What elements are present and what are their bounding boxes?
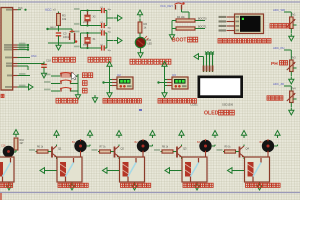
- svg-text:8MHZ: 8MHZ: [83, 44, 89, 46]
- svg-text:SSD1306: SSD1306: [222, 103, 234, 107]
- wire vertical rail of U3: [164, 67, 166, 91]
- output arrow of crystal X2 circuit: [107, 15, 122, 21]
- potentiometer RV4: [287, 88, 297, 108]
- wire VCC to R3: [58, 12, 60, 14]
- svg-text:R8 1k: R8 1k: [162, 146, 169, 148]
- svg-text:BOOT1: BOOT1: [198, 26, 207, 29]
- transistor Q3: [177, 146, 187, 158]
- wire collector of Q3 to VCC: [181, 145, 183, 147]
- svg-text:30p: 30p: [108, 50, 112, 52]
- wire left leg of X2: [80, 11, 82, 26]
- LED D2: [135, 36, 152, 48]
- power arrow above Q1: [54, 131, 59, 139]
- svg-text:10k: 10k: [62, 17, 67, 21]
- ground of reset circuit: [56, 43, 61, 51]
- resistor R5 BOOT1: [176, 27, 195, 30]
- power arrow at motor of RL3: [212, 131, 217, 139]
- label text 独立按键: [56, 98, 78, 103]
- label text 串口1窗口（模拟手机端）: [218, 39, 271, 43]
- MCU part designator text: [1, 94, 4, 97]
- wire collector of Q1 to VCC: [56, 145, 58, 147]
- terminal cursor green dot: [242, 18, 244, 20]
- relay RL0 contact: [3, 158, 11, 182]
- resistor R2: [138, 22, 147, 33]
- label text 晶振电路: [88, 57, 111, 62]
- capacitor C5: [99, 44, 112, 52]
- power arrow above U2: [107, 62, 112, 70]
- svg-text:ADC_ZD: ADC_ZD: [273, 82, 284, 86]
- svg-text:1k: 1k: [144, 25, 147, 29]
- push button BOOT select: [175, 2, 190, 20]
- wire emitter of Q1 into relay: [56, 157, 58, 159]
- resistor R9: [225, 146, 236, 153]
- DS18B20 U3 adjust dots: [175, 85, 187, 88]
- wire base of Q1: [48, 151, 52, 153]
- relay RL2 body: [120, 157, 145, 182]
- arrow into relay RL2: [103, 168, 120, 174]
- net label input of Q3: [154, 149, 162, 151]
- power arrow above Q2: [116, 131, 121, 139]
- wire base of Q3: [173, 151, 177, 153]
- label text of clipped unit: [0, 183, 13, 187]
- net label input of Q2: [92, 149, 100, 151]
- wire motor of RL2 to VCC: [149, 145, 152, 147]
- wire to key K3: [44, 89, 60, 91]
- net label VCC (blue) above R3: [45, 8, 56, 12]
- wire R2 to D2: [139, 33, 141, 38]
- svg-text:32768: 32768: [83, 22, 89, 24]
- resistor R7: [100, 146, 111, 153]
- wire common key rail: [77, 74, 79, 94]
- svg-text:C4: C4: [100, 29, 104, 31]
- label text 测温模块 U2: [103, 99, 141, 104]
- wire OSC32_OUT: [18, 45, 30, 49]
- svg-text:C2: C2: [100, 22, 104, 24]
- transistor Q2: [115, 146, 125, 158]
- resistor R8: [162, 146, 173, 153]
- ground below relay RL4: [257, 183, 262, 191]
- DS18B20 U2 LCD readout: [119, 79, 131, 84]
- OLED display U4 body: [198, 76, 244, 99]
- DS18B20 U2 body: [117, 77, 133, 89]
- label text 继电器(循环): [58, 183, 88, 187]
- wire crystal X2 bottom rail: [74, 23, 99, 25]
- DS18B20 U3 LCD readout: [174, 79, 186, 84]
- wire top of RV4: [284, 85, 291, 87]
- wire base of Q4: [236, 151, 240, 153]
- label text for RV1: [270, 24, 290, 28]
- wire to key K1: [44, 74, 60, 76]
- node NRST horizontal wire: [46, 27, 72, 30]
- relay RL2 contact: [128, 158, 136, 182]
- svg-text:OSC: OSC: [31, 54, 37, 58]
- power arrow above Q4: [241, 131, 246, 139]
- svg-text:R4 10k: R4 10k: [177, 16, 185, 19]
- svg-text:LCD1: LCD1: [191, 103, 199, 107]
- push button K1: [60, 72, 78, 78]
- svg-text:D2: D2: [148, 38, 152, 42]
- ground below relay RL0: [6, 183, 11, 191]
- svg-text:C18: C18: [46, 59, 51, 63]
- svg-text:X2: X2: [93, 16, 97, 19]
- svg-text:R2: R2: [144, 22, 148, 26]
- svg-text:v3: v3: [53, 9, 56, 12]
- power arrow above U3: [162, 62, 167, 70]
- power arrow at motor of RL2: [150, 131, 155, 139]
- resistor R3: [57, 14, 67, 26]
- power arrow on MCU BOOT0 net: [27, 84, 34, 90]
- wire collector of Q2 to VCC: [118, 145, 120, 147]
- svg-text:30p: 30p: [108, 32, 112, 34]
- ground below C18: [41, 70, 46, 78]
- svg-text:R7 1k: R7 1k: [100, 146, 107, 148]
- svg-text:C16: C16: [1, 144, 6, 147]
- OLED pin name labels: [203, 66, 214, 72]
- virtual terminal body: [235, 14, 264, 34]
- net label input of Q4: [217, 149, 225, 151]
- extra ground near DS module wire: [92, 95, 97, 103]
- svg-text:30p: 30p: [108, 28, 112, 30]
- OLED header pins: [204, 52, 215, 73]
- label text 继电器(过滤板): [246, 183, 281, 187]
- svg-text:Q4: Q4: [246, 146, 250, 150]
- svg-text:30p: 30p: [108, 9, 112, 11]
- svg-text:LED: LED: [148, 43, 153, 45]
- svg-text:RV1: RV1: [291, 14, 296, 17]
- label text 加: [83, 81, 88, 86]
- label text 继电器(加氧): [183, 183, 213, 187]
- svg-text:Q1: Q1: [58, 146, 62, 150]
- mouse cursor: [72, 72, 77, 80]
- net junction blue dot: [139, 109, 142, 111]
- relay RL0 body (clipped): [0, 157, 14, 182]
- crystal X2: [83, 9, 96, 26]
- power arrow above Q3: [179, 131, 184, 139]
- wire to key K2: [44, 81, 60, 83]
- capacitor C2: [99, 22, 112, 30]
- wire top of RV1: [284, 11, 291, 13]
- wire emitter of Q2 into relay: [118, 157, 120, 159]
- wire NRST pin: [18, 73, 31, 75]
- terminal inner pin labels: [236, 16, 240, 31]
- transistor Q4: [240, 146, 250, 158]
- ground below U3: [162, 90, 167, 98]
- output arrow of crystal X1 circuit: [107, 38, 122, 44]
- wire right leg of X2: [106, 11, 108, 26]
- virtual terminal pins: [219, 16, 235, 32]
- svg-text:PH: PH: [271, 61, 278, 67]
- ground below RV3: [289, 77, 294, 85]
- svg-text:ADC_WD: ADC_WD: [273, 8, 285, 12]
- svg-text:VCC: VCC: [45, 8, 52, 12]
- wire BOOT0 pin of MCU: [18, 85, 29, 87]
- ground of BOOT circuit: [169, 32, 174, 40]
- label text 继电器(加热): [121, 183, 151, 187]
- wire VDDA to C18: [18, 63, 45, 65]
- push button K3: [60, 88, 78, 92]
- svg-text:OLED: OLED: [204, 111, 219, 117]
- wire PC15 pin: [18, 47, 30, 51]
- label text for RV4: [267, 96, 283, 100]
- arrow into relay RL3: [165, 168, 182, 174]
- relay RL1 coil: [60, 162, 66, 177]
- push button reset: [70, 29, 78, 43]
- wire VBAT pin with net label 3V3: [18, 7, 27, 11]
- label text 测温模块 U3: [158, 99, 196, 104]
- svg-text:4k7: 4k7: [20, 142, 25, 145]
- wire below D2: [140, 48, 142, 51]
- net label input of Q1: [29, 149, 37, 151]
- wire right leg of X1: [106, 33, 108, 48]
- relay RL3 body: [182, 157, 207, 182]
- relay RL4 body: [245, 157, 270, 182]
- relay RL1 contact: [66, 158, 74, 182]
- relay RL4 coil: [248, 162, 254, 177]
- relay RL3 contact: [191, 158, 199, 182]
- wire emitter of Q4 into relay: [243, 157, 245, 159]
- wire emitter of Q3 into relay: [181, 157, 183, 159]
- power arrow above R10 (clipped unit): [13, 130, 18, 138]
- capacitor C1: [99, 7, 112, 13]
- wire motor of RL1 to VCC: [87, 145, 90, 147]
- wire vertical rail of U2: [109, 67, 111, 91]
- svg-text:C1: C1: [100, 7, 104, 9]
- ground below relay RL3: [194, 183, 199, 191]
- DS18B20 U2 pin stubs: [112, 80, 117, 86]
- wire motor of RL4 to VCC: [274, 145, 277, 147]
- arrow into OLED header: [194, 54, 204, 60]
- ground below relay RL1: [69, 183, 74, 191]
- svg-text:C5: C5: [100, 44, 104, 46]
- motor of RL3: [197, 139, 212, 157]
- relay RL0 coil (clipped): [0, 162, 3, 177]
- svg-text:BOOT: BOOT: [172, 38, 186, 44]
- ground of keys: [75, 92, 80, 100]
- capacitor C18: [41, 59, 51, 71]
- buzzer BZ1 (clipped unit): [1, 144, 14, 157]
- MCU U1 pin stubs right side: [13, 10, 18, 87]
- wire DQ of U2: [102, 81, 112, 83]
- relay RL1 body: [57, 157, 82, 182]
- wire DQ of U3: [157, 81, 167, 83]
- resistor R6: [37, 146, 48, 153]
- wire R10 to buzzer: [15, 150, 17, 152]
- svg-text:RV4: RV4: [291, 88, 296, 91]
- ground below RV1: [289, 34, 294, 42]
- label text 设置: [83, 73, 93, 78]
- motor of RL1: [72, 139, 87, 157]
- svg-text:R6 1k: R6 1k: [37, 146, 44, 148]
- capacitor C3: [56, 29, 71, 43]
- wire top of RV3: [284, 49, 291, 51]
- potentiometer RV1: [287, 14, 297, 34]
- wire crystal X1 top rail: [74, 31, 99, 33]
- push button K2: [60, 80, 78, 84]
- DS18B20 U3 pin stubs: [167, 80, 172, 86]
- arrow into relay RL4: [228, 168, 245, 174]
- relay RL4 contact: [253, 158, 261, 182]
- motor of RL2: [135, 139, 150, 157]
- wire OSC_IN with blue net label: [18, 54, 37, 58]
- DS18B20 U3 body: [172, 77, 188, 89]
- svg-text:BOOT0: BOOT0: [198, 18, 207, 21]
- potentiometer RV3: [287, 57, 297, 77]
- wire R3 to node NRST: [58, 26, 60, 30]
- MCU U1 pin name text rows: [4, 9, 12, 88]
- svg-text:RV3: RV3: [291, 57, 296, 60]
- svg-text:X1: X1: [93, 38, 97, 41]
- resistor R4 BOOT0: [176, 16, 195, 22]
- virtual terminal screen: [240, 16, 261, 32]
- wire crystal X2 top rail: [74, 8, 99, 10]
- svg-text:NRST: NRST: [50, 27, 57, 29]
- wire VCC to R2: [139, 19, 141, 23]
- transistor Q1: [52, 146, 62, 158]
- svg-text:Q3: Q3: [183, 146, 187, 150]
- crystal X1: [83, 32, 96, 49]
- wire motor of RL3 to VCC: [212, 145, 215, 147]
- power arrow at motor of RL1: [87, 131, 92, 139]
- power arrow at motor of RL4: [275, 131, 280, 139]
- label text 程序运行指示灯: [130, 59, 171, 64]
- signal arrow below D2: [138, 50, 143, 58]
- label text 复位电路: [53, 57, 76, 62]
- wire crystal X1 bottom rail: [74, 46, 99, 48]
- ground below relay RL2: [132, 183, 137, 191]
- label text for RV3: [271, 61, 288, 67]
- wire left leg of X1: [80, 33, 82, 48]
- wire VSSA: [18, 66, 29, 70]
- DS18B20 U2 adjust dots: [120, 85, 132, 88]
- svg-text:VCC_KEY: VCC_KEY: [160, 4, 173, 8]
- label text OLED显示屏: [204, 110, 234, 116]
- wire OSC32_IN: [18, 43, 30, 47]
- svg-text:3V3: 3V3: [18, 7, 23, 10]
- wire reset bottom: [48, 42, 75, 44]
- power arrow VCC of LED branch: [137, 10, 142, 18]
- resistor R10 (clipped unit): [14, 138, 24, 150]
- wire BOOT left rail: [172, 20, 176, 22]
- relay RL3 coil: [185, 162, 191, 177]
- relay RL2 coil: [123, 162, 129, 177]
- svg-text:C3: C3: [63, 32, 67, 36]
- label text 减: [83, 88, 88, 93]
- ground below U2: [107, 90, 112, 98]
- wire BOOT0 out: [195, 18, 207, 21]
- wire BOOT1 out: [195, 26, 207, 29]
- svg-text:Q2: Q2: [121, 146, 125, 150]
- motor of RL4: [260, 139, 275, 157]
- svg-text:R9 1k: R9 1k: [225, 146, 232, 148]
- wire collector of Q4 to VCC: [243, 145, 245, 147]
- svg-text:ADC_PH: ADC_PH: [273, 46, 284, 50]
- label text BOOT电路: [172, 37, 198, 43]
- capacitor C4: [99, 29, 112, 35]
- arrow into relay RL1: [40, 168, 57, 174]
- wire base of Q2: [111, 151, 115, 153]
- MCU U1 STM32 body: [1, 8, 13, 91]
- ground below RV4: [289, 108, 294, 116]
